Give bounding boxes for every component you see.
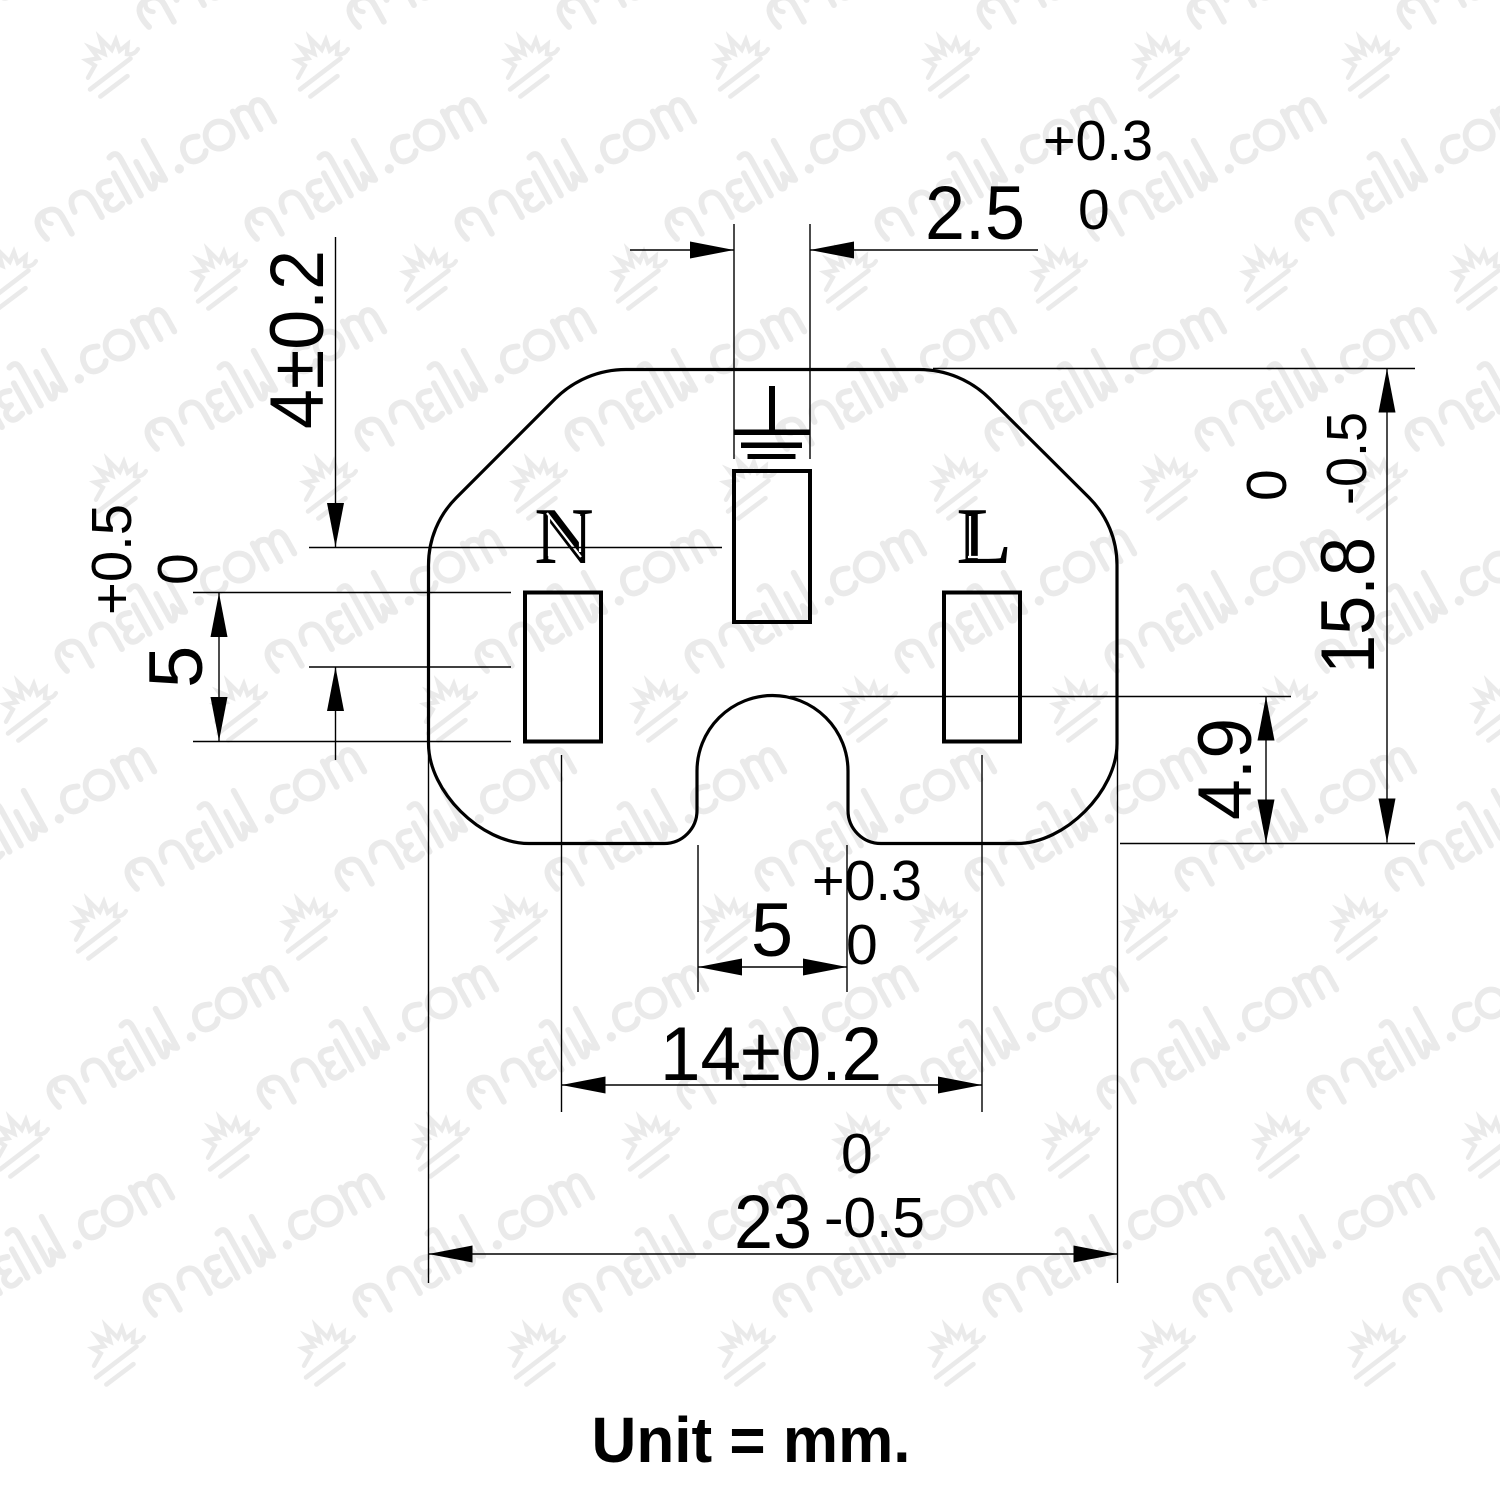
svg-text:Unit = mm.: Unit = mm.: [592, 1404, 911, 1476]
line pin slot L: [944, 593, 1020, 742]
earth slot right extension line: [809, 224, 811, 459]
dimension 5 slot height top arrow: [211, 593, 228, 637]
dimension 14±0.2 left arrow: [562, 1077, 606, 1094]
svg-text:4±0.2: 4±0.2: [255, 250, 340, 429]
dimension 4.9 bottom arrow: [1258, 800, 1275, 844]
earth symbol bar 2: [741, 443, 802, 449]
svg-text:-0.5: -0.5: [824, 1186, 925, 1250]
body bottom edge extension line: [1120, 843, 1415, 845]
dimension 15.8 bottom arrow: [1379, 799, 1396, 843]
svg-text:15.8: 15.8: [1306, 537, 1391, 674]
dimension 5 notch left arrow: [698, 959, 742, 976]
svg-text:0: 0: [146, 553, 210, 585]
svg-text:0: 0: [846, 913, 878, 977]
dimension 2.5 left arrow: [690, 242, 734, 259]
svg-text:0: 0: [841, 1122, 873, 1186]
dimension 5 slot height line: [218, 593, 220, 741]
body left edge extension line: [428, 746, 430, 1283]
svg-text:-0.5: -0.5: [1315, 412, 1379, 505]
svg-text:14±0.2: 14±0.2: [660, 1012, 882, 1097]
dimension 4.9 top arrow: [1258, 697, 1275, 741]
N slot bottom extension line: [193, 741, 511, 743]
body right edge extension line: [1117, 746, 1119, 1283]
dimension 23 right arrow: [1074, 1246, 1118, 1263]
dimension 4.9 line: [1265, 697, 1267, 844]
body top edge extension line: [933, 368, 1415, 370]
svg-text:0: 0: [1078, 178, 1110, 242]
earth pin slot: [734, 471, 810, 622]
dimension 2.5 line left tail: [630, 249, 734, 251]
notch right extension line: [846, 845, 848, 992]
earth symbol stem: [769, 386, 775, 430]
svg-text:5: 5: [134, 646, 219, 688]
svg-text:+0.3: +0.3: [812, 849, 922, 913]
svg-text:+0.3: +0.3: [1043, 109, 1153, 173]
dimension 5 notch right arrow: [803, 959, 847, 976]
svg-text:+0.5: +0.5: [80, 504, 144, 615]
dimension 2.5 line right tail: [810, 249, 1038, 251]
dimension 23 line: [429, 1253, 1118, 1255]
earth symbol bar 3: [748, 454, 796, 459]
dimension 23 left arrow: [429, 1246, 473, 1263]
dimension 4±0.2 line lower segment: [335, 667, 337, 760]
svg-text:4.9: 4.9: [1183, 718, 1268, 820]
connector body outline: [429, 370, 1118, 844]
N slot top extension line: [193, 592, 511, 594]
neutral pin slot N: [525, 593, 601, 742]
dimension 14±0.2 line: [562, 1084, 983, 1086]
earth slot centerline: [309, 547, 722, 549]
svg-text:L: L: [957, 493, 1010, 581]
svg-text:23: 23: [734, 1180, 812, 1265]
notch top extension line: [790, 696, 1291, 698]
earth symbol bar 1: [735, 430, 810, 436]
dimension 2.5 right arrow: [810, 242, 854, 259]
svg-text:2.5: 2.5: [925, 171, 1025, 256]
dimension 14±0.2 right arrow: [938, 1077, 982, 1094]
notch left extension line: [697, 845, 699, 992]
dimension 15.8 line: [1386, 369, 1388, 843]
dimension 4±0.2 lower arrow: [327, 667, 344, 711]
side slot centerline: [309, 666, 511, 668]
svg-text:0: 0: [1235, 469, 1299, 501]
earth slot left extension line: [733, 224, 735, 459]
dimension 15.8 top arrow: [1379, 369, 1396, 413]
N slot center extension line: [561, 755, 563, 1112]
dimension 5 notch width line: [698, 966, 847, 968]
dimension 4±0.2 line upper segment: [335, 237, 337, 547]
svg-text:5: 5: [751, 888, 793, 973]
svg-text:N: N: [535, 493, 593, 581]
L slot center extension line: [981, 755, 983, 1112]
dimension 4±0.2 upper arrow: [327, 503, 344, 547]
dimension 5 slot height bottom arrow: [211, 697, 228, 741]
